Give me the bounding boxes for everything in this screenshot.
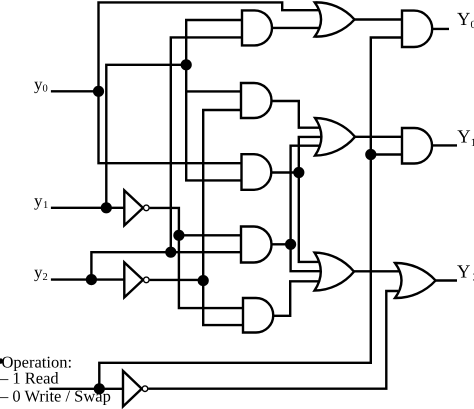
svg-text:– 0 Write / Swap: – 0 Write / Swap <box>0 386 111 405</box>
svg-text:Y: Y <box>457 10 470 30</box>
svg-text:1: 1 <box>43 200 48 211</box>
svg-text:Y: Y <box>457 128 470 148</box>
svg-text:Y: Y <box>457 263 470 283</box>
svg-text:0: 0 <box>471 19 474 31</box>
svg-text:0: 0 <box>43 84 48 95</box>
svg-text:2: 2 <box>43 272 48 283</box>
svg-text:– 1 Read: – 1 Read <box>0 369 59 388</box>
svg-text:y: y <box>34 191 43 210</box>
